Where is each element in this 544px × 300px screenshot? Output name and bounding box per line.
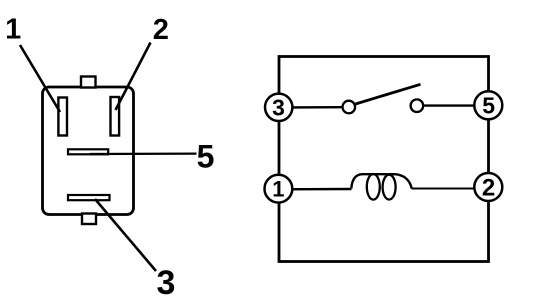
switch contact (left) — [343, 101, 356, 114]
svg-text:3: 3 — [272, 95, 285, 121]
leader line 5 — [90, 152, 197, 155]
svg-text:5: 5 — [482, 93, 495, 119]
leader line 2 — [116, 43, 151, 111]
wire: right contact to terminal 5 — [423, 104, 488, 106]
terminal 5 — [474, 91, 502, 119]
svg-text:1: 1 — [272, 177, 284, 202]
wire: terminal 3 to left contact — [279, 106, 343, 109]
pin slot 5 (middle horizontal) — [68, 149, 108, 154]
pin slot 2 (right vertical) — [111, 97, 120, 136]
terminal 2 — [474, 173, 502, 202]
bottom mounting tab — [82, 214, 96, 225]
terminal 3 — [265, 94, 292, 121]
svg-text:2: 2 — [482, 175, 495, 202]
relay body outline — [43, 87, 134, 215]
svg-text:3: 3 — [157, 264, 176, 300]
coil left loop — [367, 174, 380, 200]
switch contact (right) — [411, 99, 424, 112]
svg-text:2: 2 — [153, 14, 169, 46]
top mounting tab — [81, 77, 96, 88]
leader line 3 — [95, 199, 156, 271]
wire: terminal 1 to coil — [279, 188, 352, 191]
terminal 1 — [265, 175, 293, 203]
pin slot 3 (lower horizontal) — [68, 195, 110, 200]
switch lever — [356, 84, 421, 104]
leader line 1 — [20, 45, 60, 112]
coil right loop — [383, 175, 396, 200]
svg-text:1: 1 — [5, 14, 21, 46]
schematic box — [279, 57, 489, 262]
svg-text:5: 5 — [197, 139, 215, 175]
wire: coil to terminal 2 — [412, 188, 489, 190]
coil top arc — [351, 174, 411, 188]
pin slot 1 (left vertical) — [58, 98, 67, 136]
